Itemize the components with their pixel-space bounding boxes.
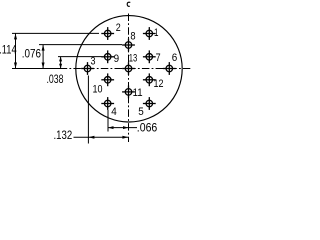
svg-text:6: 6 xyxy=(172,52,178,64)
pin 9 xyxy=(101,50,114,63)
svg-text:4: 4 xyxy=(111,106,117,118)
svg-text:.076: .076 xyxy=(22,48,41,60)
svg-text:.038: .038 xyxy=(47,74,64,86)
pin 10 xyxy=(101,73,114,86)
pin 6 xyxy=(163,62,176,75)
extension line from pin 4 column (vertical) xyxy=(107,110,109,132)
svg-text:10: 10 xyxy=(93,84,103,96)
pin 11 xyxy=(122,86,135,99)
pin 7 xyxy=(143,50,156,63)
pin 3 xyxy=(81,62,94,75)
svg-text:.066: .066 xyxy=(137,123,158,135)
svg-text:13: 13 xyxy=(129,52,138,64)
extension line row +.076 xyxy=(39,44,122,46)
svg-text:.132: .132 xyxy=(54,130,73,142)
pin 13 xyxy=(122,62,135,75)
svg-text:3: 3 xyxy=(91,56,96,68)
svg-text:5: 5 xyxy=(138,106,144,118)
extension line from pin 3 column (vertical) xyxy=(87,76,89,144)
pin 2 xyxy=(101,27,114,40)
pin 5 xyxy=(143,97,156,110)
dimension .066 xyxy=(108,126,137,129)
dimension .132 xyxy=(74,136,129,139)
pin 4 xyxy=(101,97,114,110)
svg-text:2: 2 xyxy=(116,22,121,34)
connector outline circle xyxy=(76,16,182,122)
pin 8 xyxy=(122,39,135,52)
extension line row +.114 xyxy=(12,32,99,34)
horizontal centerline xyxy=(12,68,65,70)
dimension .038 xyxy=(59,57,62,69)
svg-text:7: 7 xyxy=(156,52,161,64)
vertical centerline xyxy=(128,14,130,143)
svg-text:9: 9 xyxy=(114,53,120,65)
pin 12 xyxy=(143,73,156,86)
svg-text:11: 11 xyxy=(133,87,143,99)
extension line row +.038 xyxy=(58,56,102,58)
dimension .076 xyxy=(42,45,45,69)
svg-text:1: 1 xyxy=(154,27,159,39)
pin 1 xyxy=(143,27,156,40)
svg-text:8: 8 xyxy=(130,31,135,43)
dimension .114 xyxy=(14,33,17,68)
svg-text:.114: .114 xyxy=(0,45,17,57)
svg-text:12: 12 xyxy=(154,78,164,90)
centerline symbol at top xyxy=(127,2,130,6)
